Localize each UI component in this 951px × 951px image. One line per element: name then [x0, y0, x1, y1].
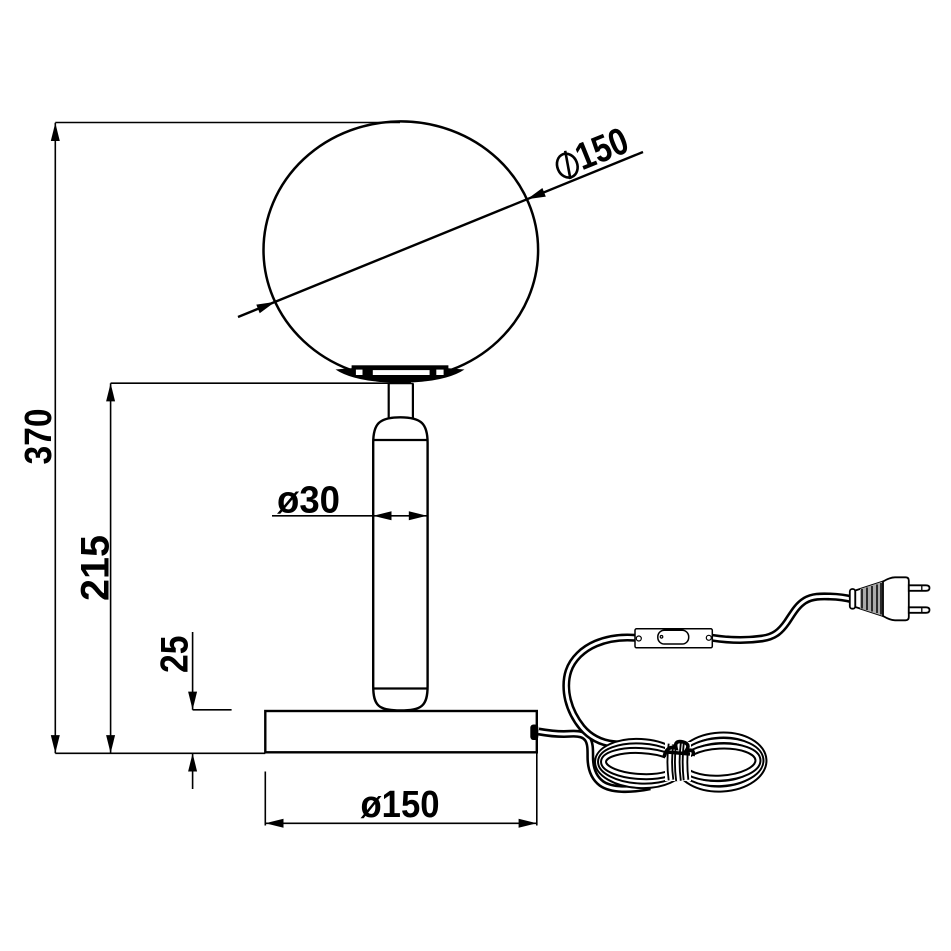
coil center wrap — [665, 742, 691, 781]
svg-text:25: 25 — [154, 636, 197, 674]
globe ellipse — [264, 121, 539, 378]
switch left notch — [636, 636, 641, 641]
plug pin top — [909, 585, 930, 591]
switch button dot — [660, 636, 663, 639]
ø30 leader line — [272, 515, 427, 517]
arrow 25 down — [188, 692, 197, 710]
switch button — [658, 630, 689, 644]
cord A: connector to coil — [539, 732, 651, 790]
base cord connector — [530, 725, 538, 741]
label phi150 (top, rotated) — [553, 151, 581, 181]
arrow ø30 right — [409, 511, 427, 520]
capsule top cap line — [374, 439, 427, 441]
25 dimension upper line — [192, 632, 194, 710]
215 extension line — [111, 382, 411, 384]
coil knot — [664, 742, 693, 757]
svg-text:ø30: ø30 — [277, 480, 340, 522]
arrow 215 top — [106, 383, 115, 401]
neck top line — [388, 383, 414, 385]
plug pin bottom — [909, 607, 930, 613]
neck right line — [412, 384, 414, 420]
arrow 215 bottom — [106, 735, 115, 753]
plug collar — [850, 589, 856, 609]
arrow 25 up — [188, 753, 197, 771]
coil left lobe loops — [596, 739, 683, 787]
370 dimension line — [54, 123, 56, 754]
holder slot white — [373, 370, 430, 375]
top extension line — [55, 122, 400, 124]
arrow 370 bottom — [51, 735, 60, 753]
holder notch left — [356, 370, 363, 375]
pin tip marks — [921, 586, 923, 591]
switch body — [635, 629, 712, 648]
stem capsule — [373, 417, 427, 710]
arrow 370 top — [51, 123, 60, 141]
arrow ø30 left — [373, 511, 391, 520]
holder notch right — [436, 370, 443, 375]
neck left line — [388, 384, 390, 420]
lamp holder dish — [336, 367, 465, 383]
arrow ø150 right — [519, 819, 537, 828]
arrow ø150 left — [265, 819, 283, 828]
diagonal diameter line — [238, 152, 643, 317]
base left extension line — [264, 772, 266, 826]
coil right lobe loops — [677, 733, 766, 791]
switch right notch — [706, 635, 711, 640]
base right extension line — [536, 753, 538, 826]
svg-text:370: 370 — [18, 409, 60, 465]
215 dimension line — [110, 383, 112, 753]
svg-text:215: 215 — [74, 535, 118, 601]
25 dimension lower line — [192, 753, 194, 789]
plug body — [883, 577, 909, 620]
ø150 dimension line — [265, 822, 537, 824]
bottom extension line — [55, 752, 265, 754]
cord B: switch to coil — [566, 638, 653, 745]
holder top bar — [352, 365, 449, 370]
capsule bottom cap line — [374, 687, 427, 689]
25 tick line — [193, 709, 232, 711]
plug boot ribbed — [855, 582, 883, 617]
arrow lower-left on globe — [256, 302, 275, 313]
base rectangle — [265, 711, 537, 752]
cord C: switch to plug — [712, 596, 852, 640]
arrow upper-right on globe — [527, 188, 546, 199]
svg-text:ø150: ø150 — [361, 784, 440, 826]
